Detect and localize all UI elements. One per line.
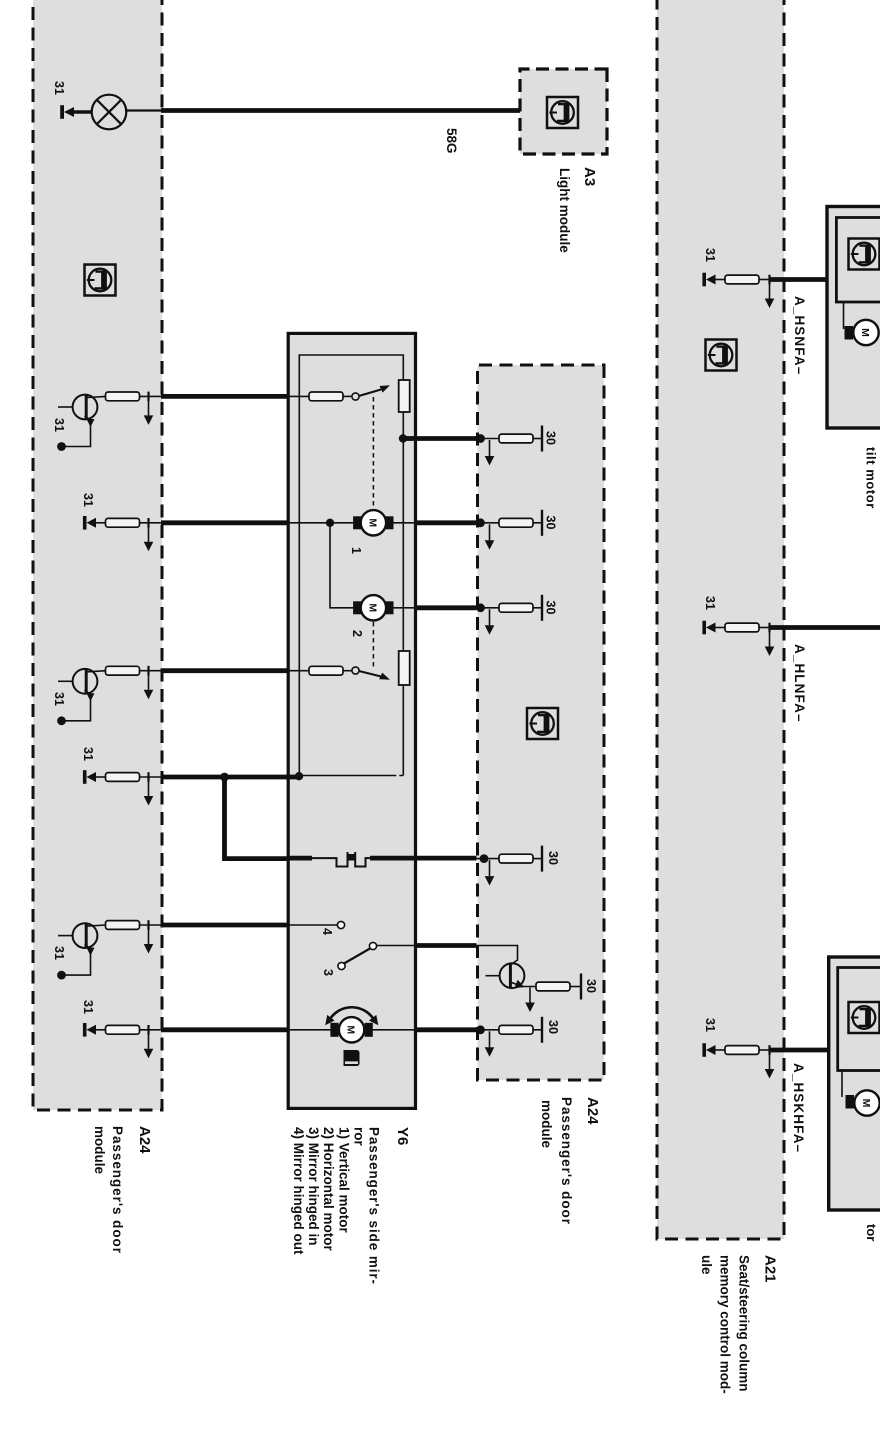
svg-text:module: module — [539, 1100, 554, 1148]
svg-text:31: 31 — [703, 248, 717, 262]
svg-text:A3: A3 — [581, 167, 598, 186]
svg-text:2: 2 — [350, 630, 364, 637]
wire from tilt unit 1 inner box to motor terminal — [843, 302, 845, 329]
ground terminal 31 column B — [83, 516, 106, 530]
wire stub from door module band into Y6 to frame corner — [286, 775, 300, 780]
ground terminal 31 — [702, 621, 725, 635]
continuation arrow — [489, 440, 491, 456]
lead pin to terminal 30 — [533, 607, 542, 609]
continuation arrow — [489, 1031, 491, 1047]
column C: junction arrow — [144, 666, 154, 699]
in-line connector symbol on vertical wire — [337, 852, 348, 867]
component icon in A21 band — [706, 340, 737, 371]
svg-text:4) Mirror hinged out: 4) Mirror hinged out — [291, 1127, 306, 1255]
ground terminal 31 column D — [83, 770, 106, 784]
pot2 connector pin inside Y6 — [309, 666, 343, 675]
contact 4 lead — [288, 924, 337, 926]
terminal of tilt unit 2 motor — [846, 1095, 855, 1109]
svg-text:tor: tor — [864, 1224, 879, 1241]
component icon in tilt motor unit 1 — [849, 239, 880, 270]
wire from top edge down into A21 band (A_HLNFA) — [769, 625, 880, 630]
lead down to connector pin — [758, 279, 770, 281]
contact 3 circle — [338, 962, 345, 969]
connector pin — [499, 434, 533, 443]
svg-text:4: 4 — [320, 928, 334, 935]
terminal 30 bar — [580, 974, 582, 1000]
inner actuator frame of Y6 — [299, 355, 403, 776]
column A: junction arrow — [144, 392, 154, 425]
svg-text:31: 31 — [52, 81, 66, 95]
svg-text:30: 30 — [546, 851, 560, 865]
svg-text:3: 3 — [321, 969, 335, 976]
mechanical link dashed M2 to pot2 — [372, 622, 374, 667]
terminal 30 bar — [541, 595, 543, 621]
column A connector pin — [106, 392, 140, 401]
lead down to connector pin — [758, 1049, 770, 1051]
wire Y6 motor M1 to door module band (col B bottom) — [161, 520, 289, 525]
svg-text:A_HSNFA–: A_HSNFA– — [792, 296, 807, 375]
column B: junction arrow — [144, 518, 154, 551]
svg-text:58G: 58G — [444, 128, 459, 154]
fold motor leads — [371, 1029, 416, 1031]
wire Y6 pot1 track up to door module band — [414, 436, 477, 441]
pot2 lead to connector pin — [343, 670, 352, 672]
column B connector pin — [106, 518, 140, 527]
component box Y6 — [288, 333, 415, 1108]
column E connector pin — [106, 921, 140, 930]
column M1-top: lead — [477, 522, 500, 524]
pot1 connector pin inside Y6 — [309, 392, 343, 401]
svg-text:31: 31 — [81, 747, 95, 761]
svg-text:2) Horizontal motor: 2) Horizontal motor — [321, 1127, 336, 1251]
connector-bump column upper part to door module band — [370, 856, 477, 861]
terminal 30 bar — [541, 510, 543, 536]
inner box of tilt motor unit 1 — [836, 218, 880, 303]
svg-text:Seat/steering column: Seat/steering column — [737, 1255, 752, 1392]
svg-text:31: 31 — [703, 596, 717, 610]
column B lead — [139, 522, 162, 524]
component icon in tilt motor unit 2 — [849, 1002, 880, 1033]
link wire M1 junction to M2 bottom terminal — [330, 523, 354, 608]
connector pin — [725, 623, 759, 632]
lead pin to terminal 30 — [533, 438, 542, 440]
motor M1 leads — [393, 522, 416, 524]
svg-text:A24: A24 — [584, 1097, 601, 1125]
ground terminal 31 column F — [83, 1023, 106, 1037]
wire Y6 pot2 connector to door module band (col C) — [161, 668, 289, 673]
pot2 track rect — [399, 651, 410, 685]
thermal protector symbol (black square with slot) — [344, 1050, 360, 1066]
column M2-top: lead — [477, 607, 500, 609]
wire Y6 motor M1 up to door module band (col B top) — [414, 520, 477, 525]
lamp symbol — [92, 95, 127, 130]
transistor driver of column E — [57, 923, 106, 979]
svg-text:30: 30 — [544, 431, 558, 445]
pot2 wiper arm with arrow — [357, 671, 381, 677]
svg-text:ule: ule — [699, 1255, 714, 1275]
component icon in middle A24 band — [527, 708, 558, 739]
pot1 wiper arm with arrow — [357, 390, 381, 397]
module box tilt motor unit (top left, cut off at top) — [827, 207, 880, 429]
column D: junction arrow — [144, 772, 154, 805]
pot1 lead to connector pin — [343, 395, 352, 397]
wire Y6 contact 4 to door module band (col E) — [161, 923, 289, 928]
ground terminal 31 of lamp — [64, 107, 74, 117]
column bump-wire: lead — [477, 858, 500, 860]
svg-text:Light module: Light module — [557, 168, 572, 253]
wire from tilt unit 2 down into A21 band (A_HSKHFA) — [770, 1048, 830, 1053]
module box A3 light module — [520, 69, 607, 154]
junction dot on col D — [220, 773, 229, 782]
continuation arrow — [489, 860, 491, 876]
svg-text:1: 1 — [349, 547, 363, 554]
A21 column 2 (A_HLNFA): junction arrow — [765, 623, 775, 656]
continuation arrow — [489, 524, 491, 540]
column F: junction arrow — [144, 1025, 154, 1058]
wire from tilt unit 2 inner box to motor terminal — [841, 1071, 843, 1098]
column E: junction arrow — [144, 920, 154, 953]
pot2 contact circle — [352, 667, 359, 674]
svg-text:A21: A21 — [762, 1255, 779, 1283]
column fold-motor-top: lead — [477, 1029, 500, 1031]
junction dot — [476, 1025, 485, 1034]
column D lead — [139, 776, 162, 778]
transistor driver of column C — [57, 669, 106, 725]
fold motor M — [339, 1017, 364, 1042]
switch arm contact 3 — [344, 949, 370, 964]
module band A21 seat/steering column memory control module — [657, 0, 784, 1239]
svg-text:module: module — [92, 1126, 107, 1174]
svg-text:tilt motor: tilt motor — [864, 447, 879, 509]
transistor driver of column A — [57, 395, 106, 451]
connector pin — [499, 518, 533, 527]
svg-text:31: 31 — [81, 1000, 95, 1014]
wire 58G from light module A3 down to door module band — [161, 108, 520, 113]
dashed part of actuator frame right edge — [393, 775, 403, 777]
terminal of tilt unit 1 motor — [845, 326, 854, 340]
motor M2 leads — [393, 607, 416, 609]
svg-text:Y6: Y6 — [394, 1127, 411, 1145]
module band A24 passenger's door module (bottom) — [33, 0, 162, 1110]
pot1 track rect — [399, 380, 410, 412]
motor M2 terminals — [385, 601, 393, 614]
junction dot — [476, 603, 485, 612]
ground terminal 31 — [702, 273, 725, 287]
svg-text:memory control mod-: memory control mod- — [718, 1255, 733, 1394]
terminal 30 bar — [541, 1017, 543, 1043]
wire Y6 fold motor to door module band (col F bottom) — [161, 1027, 289, 1032]
connector pin — [725, 1046, 759, 1055]
motor M2 — [361, 595, 386, 620]
column C connector pin — [106, 666, 140, 675]
svg-text:31: 31 — [52, 692, 66, 706]
connector pin — [499, 854, 533, 863]
transistor column: lead from Y6 contact 3 — [477, 945, 518, 947]
module band A24 passenger's door module (middle) — [478, 365, 605, 1080]
connector pin — [725, 275, 759, 284]
swivel arc around fold motor — [330, 1007, 374, 1019]
column F connector pin — [106, 1025, 140, 1034]
terminal 30 bar — [541, 426, 543, 452]
column D connector pin — [106, 773, 140, 782]
transistor collector link — [511, 945, 518, 965]
mechanical link dashed pot1 to M1 — [372, 397, 374, 508]
component icon in bottom A24 band — [85, 265, 116, 296]
column C lead — [139, 670, 162, 672]
terminal 30 bar — [541, 846, 543, 872]
column pot1-track: lead — [477, 438, 500, 440]
svg-text:31: 31 — [81, 493, 95, 507]
wire Y6 motor M2 up to door module band — [414, 605, 477, 610]
column A lead — [139, 395, 162, 397]
junction dot — [476, 434, 485, 443]
wire Y6 pot1 connector to door module band (col A) — [161, 394, 289, 399]
svg-text:1) Vertical motor: 1) Vertical motor — [336, 1127, 351, 1234]
wire Y6 contact 3 up to door module band — [414, 943, 477, 948]
svg-text:A24: A24 — [136, 1126, 153, 1154]
svg-text:3) Mirror hinged in: 3) Mirror hinged in — [306, 1127, 321, 1246]
svg-text:A_HSKHFA–: A_HSKHFA– — [791, 1063, 806, 1153]
svg-text:Passenger's door: Passenger's door — [559, 1097, 574, 1225]
svg-text:31: 31 — [52, 946, 66, 960]
lead pin to terminal 30 — [570, 986, 581, 988]
svg-text:30: 30 — [544, 601, 558, 615]
connector pin — [499, 1025, 533, 1034]
wire from tilt unit 1 down into A21 band (A_HSNFA) — [769, 277, 827, 282]
inner box of tilt motor unit 2 — [838, 968, 880, 1071]
motor M1 terminals — [385, 516, 393, 529]
branch wire from col D junction to connector-bump column — [225, 777, 290, 859]
motor M of tilt unit 2 — [854, 1090, 879, 1115]
pot1 lead pin to Y6 edge — [288, 395, 309, 397]
fold motor terminals — [365, 1023, 373, 1037]
lamp feed lead — [125, 109, 162, 111]
lead pin to terminal 30 — [533, 522, 542, 524]
junction dot at frame bottom-right corner — [295, 772, 303, 780]
A21 column 1 (A_HSNFA): junction arrow — [765, 275, 775, 308]
component icon in A3 box — [547, 97, 578, 128]
wire stub from band into Y6 to frame top edge — [403, 436, 417, 441]
output transistor in middle A24 band — [486, 963, 537, 991]
svg-text:31: 31 — [703, 1018, 717, 1032]
junction dot — [476, 518, 485, 527]
svg-text:Passenger's door: Passenger's door — [110, 1126, 125, 1254]
connector pin — [499, 603, 533, 612]
svg-text:30: 30 — [546, 1020, 560, 1034]
pot1 contact circle — [352, 393, 359, 400]
contact 4 circle — [337, 921, 344, 928]
connector pin of transistor output — [536, 982, 570, 991]
fixed contact circle of switch 3 — [369, 942, 376, 949]
continuation arrow — [489, 609, 491, 625]
motor M1 — [361, 510, 386, 535]
svg-text:ror: ror — [351, 1127, 366, 1147]
module box tilt motor unit 2 (top right, cut off at top) — [829, 957, 880, 1210]
svg-text:30: 30 — [544, 516, 558, 530]
A21 column 3 (A_HSKHFA): junction arrow — [765, 1045, 775, 1078]
column F lead — [139, 1029, 162, 1031]
column E lead — [139, 924, 162, 926]
connector-bump column through Y6 up to door module band — [288, 856, 313, 861]
emitter junction arrow — [529, 988, 531, 1003]
ground terminal 31 — [702, 1043, 725, 1057]
contact 3 lead up to Y6 edge — [377, 945, 416, 947]
junction dot — [480, 854, 489, 863]
lead down to connector pin — [758, 627, 770, 629]
lead pin to terminal 30 — [533, 1029, 542, 1031]
pot2 lead pin to Y6 edge — [288, 670, 309, 672]
motor M of tilt unit 1 — [853, 320, 878, 345]
junction dot of pot1 track wire on frame top edge — [399, 434, 407, 442]
junction dot below M1 — [326, 519, 334, 527]
svg-text:30: 30 — [584, 979, 598, 993]
svg-text:Passenger's side mir-: Passenger's side mir- — [367, 1127, 382, 1285]
wire Y6 fold motor up to door module band (col F top) — [414, 1027, 477, 1032]
wire Y6 frame corner to door module band (col D) — [161, 775, 289, 780]
svg-text:A_HLNFA–: A_HLNFA– — [792, 644, 807, 723]
lead pin to terminal 30 — [533, 858, 542, 860]
svg-text:31: 31 — [52, 418, 66, 432]
lamp ground lead — [74, 110, 92, 113]
